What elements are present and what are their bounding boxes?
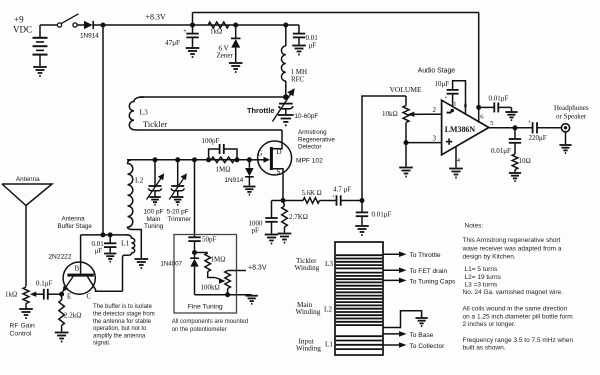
label +8.3V (fine tuning) <box>248 264 267 271</box>
ground (battery) <box>33 67 47 76</box>
label 47uF + polarity <box>165 27 187 47</box>
node A (supply after D1) <box>101 23 106 28</box>
wiper arrow (RF gain) <box>30 292 44 297</box>
label Antenna Buffer Stage <box>58 216 93 231</box>
svg-text:L3: L3 <box>325 260 333 268</box>
node (gridleak left) <box>206 157 211 162</box>
svg-text:1MΩ: 1MΩ <box>211 256 226 264</box>
svg-text:1N4007: 1N4007 <box>161 260 183 267</box>
U2 source lead <box>273 169 283 201</box>
svg-text:47μF: 47μF <box>165 39 180 47</box>
svg-text:10μF: 10μF <box>435 80 450 88</box>
svg-text:or Speaker: or Speaker <box>556 113 587 121</box>
svg-text:L2= 19 turns: L2= 19 turns <box>465 274 502 281</box>
resistor R2 1M gridleak <box>211 157 235 163</box>
svg-text:1kΩ: 1kΩ <box>5 291 17 299</box>
variable capacitor C6 trimmer <box>169 160 187 205</box>
node (47uF tap) <box>190 23 195 28</box>
ground (zener) <box>229 63 243 72</box>
label 0.1uF <box>36 280 53 288</box>
pin 3 label <box>433 135 437 143</box>
svg-text:on the potentiometer: on the potentiometer <box>172 327 227 333</box>
switch S1 <box>57 14 78 27</box>
potentiometer R10 1k RF gain <box>23 287 29 309</box>
label L1 <box>121 239 130 248</box>
ground (R3) <box>278 234 292 243</box>
wire fine tuning ground bus <box>195 294 252 296</box>
ground (L2 winding) <box>416 318 428 326</box>
svg-text:2: 2 <box>433 106 437 114</box>
svg-text:Trimmer: Trimmer <box>168 216 192 223</box>
capacitor C13 10uF bypass <box>447 81 466 115</box>
svg-text:L1: L1 <box>121 239 130 248</box>
svg-text:Buffer Stage: Buffer Stage <box>58 223 93 230</box>
svg-text:The buffer is to isolate: The buffer is to isolate <box>93 304 153 310</box>
wire base bus <box>81 234 129 236</box>
label Armstrong Regenerative Detector <box>298 129 335 151</box>
label +8.3V <box>146 12 167 21</box>
capacitor C2 0.01uF (rail bypass) <box>293 25 305 45</box>
coil form body <box>335 242 383 355</box>
ground (pin4) <box>449 169 463 178</box>
label plus input <box>446 138 452 144</box>
svg-text:Main: Main <box>147 216 161 223</box>
inductor L3 tickler <box>129 97 144 130</box>
svg-text:on a 1.25 inch diameter pill b: on a 1.25 inch diameter pill bottle form <box>463 314 573 321</box>
svg-text:1kΩ: 1kΩ <box>210 28 222 36</box>
ground (C9) <box>104 254 116 262</box>
node B (throttle junction) <box>283 94 289 100</box>
svg-text:100kΩ: 100kΩ <box>201 284 220 292</box>
svg-text:signal.: signal. <box>93 341 111 347</box>
Q1 base lead <box>80 235 82 274</box>
svg-text:L3 =3 turns: L3 =3 turns <box>465 282 498 289</box>
capacitor C16 220uF <box>533 122 562 133</box>
transistor U2 MPF102 body <box>258 141 292 175</box>
svg-text:0.1μF: 0.1μF <box>36 280 53 288</box>
pin 1 stub <box>452 94 454 108</box>
headphone jack J1 <box>561 124 569 144</box>
wire pin 6 riser <box>478 13 480 123</box>
svg-text:1: 1 <box>453 101 456 108</box>
svg-text:Zener: Zener <box>217 52 234 60</box>
label 0.01uF (C14) <box>489 95 509 103</box>
label 1000pF <box>249 220 264 235</box>
capacitor C11 4.7uF <box>337 195 363 205</box>
svg-text:G: G <box>258 150 263 158</box>
svg-text:Antenna: Antenna <box>62 216 86 223</box>
svg-text:Regenerative: Regenerative <box>298 136 335 143</box>
svg-text:+9: +9 <box>14 15 24 25</box>
ground (C12) <box>355 226 369 235</box>
svg-text:MPF 102: MPF 102 <box>296 158 323 165</box>
pin 4 label <box>457 157 461 164</box>
wire battery to switch <box>40 24 58 26</box>
node (main tuning tap) <box>153 157 158 162</box>
svg-text:Frequency range 3.5 to 7.5 mHz: Frequency range 3.5 to 7.5 mHz when <box>463 337 574 344</box>
input winding turns L1 <box>336 336 382 349</box>
variable capacitor C5 main tuning <box>147 160 165 205</box>
svg-text:0.01μF: 0.01μF <box>489 95 509 103</box>
svg-text:E: E <box>67 293 71 301</box>
wire pot to ground <box>405 143 407 167</box>
label 1N914 (D1) <box>80 33 99 40</box>
label 0.01uF (C15) <box>491 147 511 155</box>
wire pin 3 <box>406 142 442 144</box>
svg-text:Armstrong: Armstrong <box>298 129 327 136</box>
label Main Winding L2 <box>296 301 333 316</box>
svg-text:3: 3 <box>433 135 437 143</box>
label 4.7uF + polarity <box>332 186 352 201</box>
pin 6 label <box>480 114 484 121</box>
pin 2 label <box>433 106 437 114</box>
resistor R6 10 ohm <box>512 154 518 172</box>
label minus input <box>447 112 452 114</box>
svg-text:amplify the antenna: amplify the antenna <box>93 333 146 339</box>
capacitor C4 100pF gridleak <box>209 144 237 160</box>
svg-text:RFC: RFC <box>291 76 305 84</box>
wire to volume pot <box>362 96 406 201</box>
wire riser to top rail <box>192 13 194 26</box>
svg-text:220μF: 220μF <box>529 134 547 142</box>
label 1MOhm (fine) <box>211 256 226 264</box>
ground (R11) <box>55 333 69 342</box>
svg-text:VDC: VDC <box>13 25 32 35</box>
node (source junction) <box>281 198 286 203</box>
battery label +9 VDC <box>13 15 32 35</box>
label Tickler <box>143 119 167 129</box>
svg-text:8: 8 <box>464 103 467 110</box>
svg-text:Audio Stage: Audio Stage <box>418 68 456 75</box>
resistor R8 1M (fine tuning) <box>195 253 226 284</box>
svg-text:50pF: 50pF <box>202 236 217 244</box>
arrow To Tuning Caps <box>383 278 456 286</box>
svg-text:Throttle: Throttle <box>247 106 275 115</box>
arrow To FET drain <box>383 267 447 275</box>
label 0.01uF (C12) <box>372 211 392 219</box>
wire fine tuning drop <box>194 160 196 238</box>
ground (L2) <box>135 259 149 268</box>
svg-text:All components are mounted: All components are mounted <box>172 319 248 325</box>
svg-text:Winding: Winding <box>296 308 321 316</box>
op-amp U1 LM386N <box>442 100 489 155</box>
main winding turns L2 <box>336 273 382 326</box>
wire L3 bottom to drain <box>139 129 282 131</box>
svg-text:L2: L2 <box>324 306 332 314</box>
node (RFC tap) <box>283 23 288 28</box>
svg-text:D: D <box>277 148 282 156</box>
pin 5 label <box>490 120 493 127</box>
label 10Ohm <box>519 157 531 165</box>
label 5.6kOhm <box>302 190 322 197</box>
ground (throttle) <box>278 115 294 125</box>
node (pin6) <box>476 105 481 110</box>
capacitor C7 50pF <box>188 237 200 252</box>
svg-text:L1: L1 <box>325 341 333 349</box>
svg-text:100pF: 100pF <box>202 137 220 145</box>
arrow To Base <box>383 331 434 339</box>
zener diode D2 6V <box>231 25 241 62</box>
antenna symbol <box>2 184 52 287</box>
label L2 <box>135 176 144 185</box>
label G <box>258 150 263 158</box>
capacitor C14 0.01uF (pin6) <box>479 102 512 112</box>
U2 drain lead <box>273 130 282 149</box>
label 5-20pF Trimmer <box>167 209 192 223</box>
svg-text:Tuning: Tuning <box>144 223 164 230</box>
svg-text:2N2222: 2N2222 <box>48 254 71 261</box>
svg-text:wave receiver was adapted from: wave receiver was adapted from a <box>462 245 562 252</box>
transistor Q1 2N2222 body <box>63 262 95 294</box>
svg-text:+8.3V: +8.3V <box>248 264 267 271</box>
label 0.01uF (C2) <box>306 34 319 50</box>
svg-text:B: B <box>75 265 80 273</box>
svg-text:2 inches or longer.: 2 inches or longer. <box>463 321 516 328</box>
ground (C10) <box>265 235 279 244</box>
buffer note text <box>93 304 155 347</box>
Q1 collector lead <box>88 277 123 292</box>
ground (R6) <box>509 173 521 181</box>
ground (C2) <box>292 46 306 55</box>
label 10kOhm <box>382 110 398 118</box>
label 10uF + polarity <box>435 80 450 102</box>
node (base bypass) <box>108 232 113 237</box>
label RF Gain Control <box>10 323 36 338</box>
svg-text:Detector: Detector <box>298 144 321 151</box>
svg-text:LM386N: LM386N <box>445 125 476 134</box>
inductor L1 <box>123 235 135 291</box>
wire output <box>489 127 533 129</box>
node (gridleak right) <box>235 157 240 162</box>
svg-text:L3: L3 <box>140 108 149 117</box>
svg-text:To Throttle: To Throttle <box>410 252 441 259</box>
label 220uF + polarity <box>528 120 547 142</box>
ground (jack) <box>559 145 571 153</box>
wire source junction <box>272 200 284 202</box>
label L3 <box>140 108 149 117</box>
svg-text:1MΩ: 1MΩ <box>216 166 231 174</box>
label 1kOhm (RF gain) <box>5 291 17 299</box>
tickler winding turns L3 <box>336 255 382 268</box>
svg-text:100 pF: 100 pF <box>144 209 164 216</box>
fine tuning enclosure <box>174 235 237 314</box>
label 100pF Main Tuning <box>144 209 164 231</box>
label Audio Stage <box>418 68 456 75</box>
label VOLUME <box>390 85 422 94</box>
label 1N4007 <box>161 260 183 267</box>
wire supply rail <box>103 24 299 26</box>
wire L2 bottom to ground <box>133 230 141 259</box>
svg-text:the antenna for stable: the antenna for stable <box>93 319 152 325</box>
battery BT1 <box>33 25 48 66</box>
label MPF 102 <box>296 158 323 165</box>
label C <box>87 293 92 301</box>
label Tickler Winding L3 <box>295 257 334 272</box>
node (emitter junction) <box>59 292 64 297</box>
resistor R11 2.2k <box>59 294 65 331</box>
svg-text:Tickler: Tickler <box>143 119 167 129</box>
svg-text:built as shown.: built as shown. <box>463 345 506 352</box>
pin 1 label <box>450 101 456 113</box>
arrow To Collector <box>383 342 445 350</box>
svg-text:the detector stage from: the detector stage from <box>93 312 155 318</box>
capacitor C8 0.1uF <box>44 289 62 300</box>
svg-text:1N914: 1N914 <box>225 177 244 184</box>
label 2.2kOhm <box>64 312 81 320</box>
node (pin3 tap) <box>404 140 409 145</box>
svg-text:S: S <box>277 168 281 176</box>
Q1 emitter lead <box>62 277 73 295</box>
diode D3 1N914 (gate clamp) <box>245 160 254 186</box>
ground (RF gain) <box>19 309 33 318</box>
label 1N914 (D3) <box>225 177 244 184</box>
resistor R3 2.7k <box>282 201 288 233</box>
svg-text:+8.3V: +8.3V <box>146 12 167 21</box>
wire L3 top to throttle junction <box>139 96 286 98</box>
svg-text:4.7 μF: 4.7 μF <box>333 186 351 194</box>
svg-text:RF Gain: RF Gain <box>10 323 36 330</box>
svg-text:5-20 pF: 5-20 pF <box>167 209 189 216</box>
svg-text:This Armstrong regenerative sh: This Armstrong regenerative short <box>463 237 561 244</box>
node (fine tuning junction) <box>192 250 197 255</box>
label 2N2222 <box>48 254 71 261</box>
svg-text:Winding: Winding <box>296 344 321 352</box>
svg-text:C: C <box>87 293 92 301</box>
svg-text:10kΩ: 10kΩ <box>382 110 398 118</box>
capacitor C10 1000pF <box>265 201 277 234</box>
svg-text:pF: pF <box>252 227 260 235</box>
diode D1 1N914 <box>84 21 103 29</box>
label 2.7kOhm <box>289 213 308 221</box>
svg-text:VOLUME: VOLUME <box>390 85 422 94</box>
label S <box>277 168 281 176</box>
wire supply riser to buffer <box>102 25 104 235</box>
svg-text:Headphones: Headphones <box>554 104 589 112</box>
label Input Winding L1 <box>296 337 333 352</box>
U2 gate lead <box>250 157 270 163</box>
capacitor C12 0.01uF (volume) <box>356 201 368 226</box>
svg-text:To FET drain: To FET drain <box>410 268 448 275</box>
svg-text:μF: μF <box>309 42 317 50</box>
label Throttle <box>247 106 275 115</box>
label 50pF <box>202 236 217 244</box>
node (output) <box>513 125 518 130</box>
svg-text:0.01μF: 0.01μF <box>491 147 511 155</box>
svg-text:Fine Tuning: Fine Tuning <box>188 304 223 311</box>
potentiometer R5 10k volume <box>403 96 409 143</box>
node (supply to base) <box>101 232 106 237</box>
svg-text:Antenna: Antenna <box>16 176 40 183</box>
label Headphones or Speaker <box>554 104 589 121</box>
svg-text:Control: Control <box>10 331 32 338</box>
ground (fine tuning) <box>246 296 258 304</box>
svg-text:All coils wound in the same di: All coils wound in the same direction <box>463 305 568 312</box>
ground (C1) <box>186 48 200 57</box>
label 10-60pF <box>295 113 319 120</box>
arrow To Throttle <box>383 251 441 259</box>
label 1MOhm <box>216 166 231 174</box>
potentiometer R9 100k <box>225 271 231 295</box>
svg-text:operation, but not to: operation, but not to <box>93 326 147 332</box>
svg-text:design by Kitchen.: design by Kitchen. <box>463 253 516 260</box>
svg-text:5.6K Ω: 5.6K Ω <box>302 190 322 197</box>
node (zener tap) <box>233 23 238 28</box>
diode D4 1N4007 <box>190 253 199 295</box>
svg-text:Notes:: Notes: <box>465 222 484 229</box>
svg-text:5: 5 <box>490 120 493 127</box>
wire 100k top to +8.3V <box>228 270 246 272</box>
svg-text:Winding: Winding <box>295 264 320 272</box>
svg-text:1N914: 1N914 <box>80 33 99 40</box>
ground (volume) <box>399 168 413 177</box>
note mounted on potentiometer <box>172 319 248 333</box>
node (fine tuning tap) <box>192 157 197 162</box>
svg-text:2.2kΩ: 2.2kΩ <box>64 312 81 320</box>
wiper arrow (volume) <box>408 112 442 117</box>
wire switch to diode <box>77 24 84 26</box>
label 6V Zener <box>217 45 234 60</box>
variable capacitor C3 throttle <box>273 88 295 121</box>
wire tuning bus <box>127 159 250 161</box>
svg-text:10Ω: 10Ω <box>519 157 531 165</box>
svg-text:10-60pF: 10-60pF <box>295 113 319 120</box>
label Fine Tuning <box>188 304 223 311</box>
label 100pF <box>202 137 220 145</box>
svg-text:0.01μF: 0.01μF <box>372 211 392 219</box>
svg-text:To Collector: To Collector <box>410 343 446 350</box>
pin 8 label <box>464 103 467 110</box>
label 100kOhm <box>201 284 220 292</box>
label E <box>67 293 71 301</box>
pin 4 stub <box>455 147 457 168</box>
label LM386N <box>445 125 476 134</box>
svg-text:To Base: To Base <box>410 332 434 339</box>
inductor L4 1MH RFC <box>281 25 285 96</box>
label 1MH RFC <box>291 68 308 84</box>
svg-text:To Tuning Caps: To Tuning Caps <box>410 278 457 285</box>
svg-text:2.7KΩ: 2.7KΩ <box>289 213 308 221</box>
svg-text:μF: μF <box>95 247 103 255</box>
svg-text:+: + <box>183 27 187 35</box>
wire +8.3V top rail <box>193 12 479 14</box>
svg-text:No. 24 Ga. varnished magnet wi: No. 24 Ga. varnished magnet wire. <box>463 289 564 296</box>
label 1kOhm <box>210 28 222 36</box>
capacitor C9 0.01uF (base) <box>104 235 116 253</box>
inductor L2 <box>128 160 134 230</box>
label 0.01uF (C9) <box>92 240 105 255</box>
resistor R1 1k <box>208 22 229 28</box>
ground (D3) <box>243 187 255 195</box>
capacitor C15 0.01uF (zobel) <box>509 128 521 154</box>
capacitor C1 47uF <box>186 25 198 47</box>
node (trimmer tap) <box>175 157 180 162</box>
svg-text:L1= 5 turns: L1= 5 turns <box>465 266 498 273</box>
svg-text:+: + <box>444 96 448 102</box>
notes text <box>462 222 574 351</box>
label B <box>75 265 80 273</box>
node (fine tuning gnd bus) <box>225 292 230 297</box>
label Antenna <box>16 176 40 183</box>
svg-text:L2: L2 <box>135 176 144 185</box>
ground (C14) <box>505 112 517 120</box>
wire L2 to ground <box>383 311 422 328</box>
node (1N914 tap) <box>247 157 252 162</box>
label D <box>277 148 282 156</box>
node (volume feed) <box>360 198 365 203</box>
resistor R4 5.6k <box>283 198 337 204</box>
